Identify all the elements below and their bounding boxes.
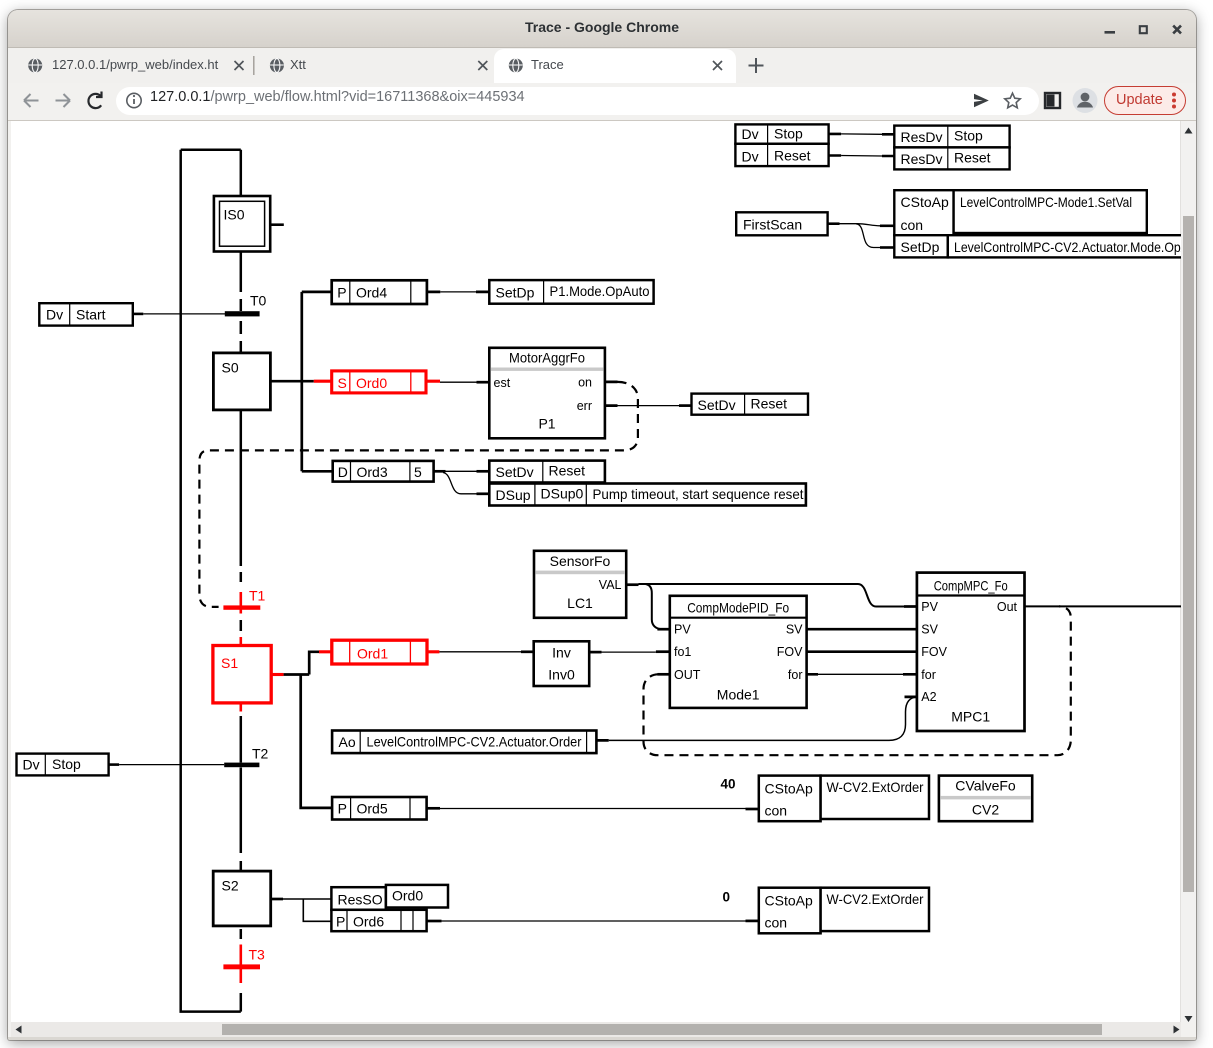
wire Ord3 to SetDv2 xyxy=(446,470,490,472)
condition box FirstScan xyxy=(736,212,827,235)
dashed feedback: PID OUT loop to MPC Out xyxy=(644,606,1071,755)
wire Ord0 to est xyxy=(440,381,489,383)
svg-text:Ord5: Ord5 xyxy=(357,801,388,817)
svg-text:for: for xyxy=(788,668,803,682)
transition T2 xyxy=(224,746,268,768)
condition box Dv Stop (top row) xyxy=(735,124,828,143)
SFC main rail xyxy=(181,150,241,1012)
svg-text:est: est xyxy=(494,376,511,390)
svg-text:MPC1: MPC1 xyxy=(951,709,990,725)
svg-text:P: P xyxy=(336,914,345,930)
svg-text:Ord0: Ord0 xyxy=(392,888,423,904)
wire Reset to ResDv Reset xyxy=(829,154,895,157)
wire FirstScan to SetDp xyxy=(856,224,894,248)
wire VAL branch to PID PV xyxy=(646,584,670,629)
rail red segments xyxy=(240,592,243,983)
svg-text:Ord1: Ord1 xyxy=(357,646,388,662)
svg-text:S1: S1 xyxy=(221,655,238,671)
condition box Ao LevelControlMPC-CV2.Actuator.Order xyxy=(332,731,596,754)
svg-text:CStoAp: CStoAp xyxy=(901,194,949,210)
svg-text:err: err xyxy=(577,399,592,413)
value 0 xyxy=(722,890,730,905)
function block CValveFo CV2 xyxy=(939,776,1032,822)
svg-text:Reset: Reset xyxy=(751,396,788,412)
svg-text:Reset: Reset xyxy=(774,147,811,163)
svg-text:PV: PV xyxy=(674,623,691,637)
svg-text:CStoAp: CStoAp xyxy=(765,893,813,909)
step S2 xyxy=(213,871,271,926)
svg-text:P1: P1 xyxy=(538,416,555,432)
svg-text:SetDp: SetDp xyxy=(496,285,535,301)
svg-text:FirstScan: FirstScan xyxy=(743,217,802,233)
condition box Dv Stop (left) xyxy=(17,754,109,776)
svg-text:0: 0 xyxy=(722,890,730,905)
wire Ord5 to CStoAp xyxy=(440,808,759,811)
svg-text:SV: SV xyxy=(786,623,803,637)
svg-text:LevelControlMPC-Mode1.SetVal: LevelControlMPC-Mode1.SetVal xyxy=(960,194,1132,210)
svg-text:Dv: Dv xyxy=(23,757,40,773)
wire MPC Out to edge xyxy=(1025,605,1182,607)
order box CStoAp con LevelControlMPC-Mode1.SetVal xyxy=(894,190,1146,235)
action box S Ord0 (active, red) xyxy=(314,371,440,393)
order box SetDp P1.Mode.OpAuto xyxy=(489,280,653,304)
svg-text:DSup0: DSup0 xyxy=(541,486,584,502)
svg-text:Stop: Stop xyxy=(954,127,983,143)
svg-text:SetDv: SetDv xyxy=(496,464,534,480)
svg-text:5: 5 xyxy=(414,464,422,480)
svg-text:Ord4: Ord4 xyxy=(356,285,387,301)
svg-text:P: P xyxy=(337,285,346,301)
action box P Ord5 xyxy=(332,797,440,820)
svg-text:Dv: Dv xyxy=(46,307,63,323)
svg-text:Ord3: Ord3 xyxy=(357,464,388,480)
wire Stop to ResDv Stop xyxy=(829,133,895,136)
svg-text:OUT: OUT xyxy=(674,668,701,682)
wire Ord3 to DSup xyxy=(443,473,489,494)
svg-text:CompMPC_Fo: CompMPC_Fo xyxy=(934,578,1008,594)
svg-text:IS0: IS0 xyxy=(224,207,245,223)
svg-text:FOV: FOV xyxy=(921,645,947,659)
action box ResSO Ord0 xyxy=(331,885,448,910)
order box SetDv Reset (from err) xyxy=(692,394,809,415)
step S0 xyxy=(213,353,270,410)
svg-text:S0: S0 xyxy=(222,360,239,376)
svg-text:Start: Start xyxy=(76,306,106,322)
wire Ao to MPC A2 xyxy=(596,697,918,741)
order box ResDv Stop xyxy=(894,126,1009,148)
order box DSup DSup0 Pump timeout xyxy=(489,484,806,506)
transition T0 xyxy=(225,293,267,317)
svg-text:Out: Out xyxy=(997,600,1018,614)
svg-text:CV2: CV2 xyxy=(972,802,999,818)
condition box Dv Reset (top row) xyxy=(735,144,828,166)
action box D Ord3 5 xyxy=(333,461,446,482)
svg-text:A2: A2 xyxy=(921,690,936,704)
wire FirstScan to CStoAp con xyxy=(828,224,895,226)
svg-text:for: for xyxy=(921,668,936,682)
svg-text:Reset: Reset xyxy=(549,463,586,479)
svg-text:con: con xyxy=(765,803,788,819)
order box SetDv Reset (timeout) xyxy=(489,461,605,483)
wire Stop to T2 xyxy=(109,763,225,766)
PID OUT stub xyxy=(657,673,669,676)
svg-text:T1: T1 xyxy=(249,588,266,604)
svg-text:Stop: Stop xyxy=(52,756,81,772)
svg-text:D: D xyxy=(338,464,348,480)
wire Ord1 to Inv xyxy=(439,651,533,653)
svg-text:on: on xyxy=(578,376,592,390)
svg-text:con: con xyxy=(765,915,788,931)
svg-text:P: P xyxy=(338,801,347,817)
condition box Dv Start xyxy=(39,303,133,325)
step S1 (active, red) xyxy=(213,646,284,703)
wire for to for xyxy=(807,673,917,676)
order box ResDv Reset xyxy=(894,147,1009,169)
wire Inv to fo1 xyxy=(602,651,670,653)
wire Start to T0 xyxy=(133,313,225,316)
svg-text:Ao: Ao xyxy=(339,734,356,750)
S2 action junction wires xyxy=(271,899,332,921)
svg-text:Inv: Inv xyxy=(552,645,571,661)
svg-text:ResSO: ResSO xyxy=(338,892,383,908)
transition T3 (red) xyxy=(223,947,265,970)
wire Ord4 to SetDp xyxy=(427,291,489,294)
svg-text:con: con xyxy=(901,217,924,233)
svg-text:S: S xyxy=(338,375,347,391)
order box CStoAp con W-CV2.ExtOrder (0) xyxy=(759,888,929,934)
svg-text:PV: PV xyxy=(921,600,938,614)
svg-text:Stop: Stop xyxy=(774,125,803,141)
wire VAL to MPC PV xyxy=(639,584,918,607)
svg-text:Mode1: Mode1 xyxy=(717,687,760,703)
action box P Ord6 xyxy=(331,910,441,931)
svg-text:CompModePID_Fo: CompModePID_Fo xyxy=(687,600,789,616)
svg-text:SV: SV xyxy=(921,623,938,637)
svg-text:Inv0: Inv0 xyxy=(548,667,575,683)
svg-text:T2: T2 xyxy=(252,746,269,762)
svg-text:Ord0: Ord0 xyxy=(356,375,387,391)
svg-text:fo1: fo1 xyxy=(674,645,691,659)
transition T1 (red) xyxy=(223,588,265,610)
svg-text:W-CV2.ExtOrder: W-CV2.ExtOrder xyxy=(827,779,924,795)
svg-text:LevelControlMPC-CV2.Actuator.M: LevelControlMPC-CV2.Actuator.Mode.OpAuto xyxy=(954,239,1206,255)
S0 action junction wires xyxy=(270,292,332,471)
svg-text:FOV: FOV xyxy=(777,645,803,659)
svg-text:VAL: VAL xyxy=(599,578,622,592)
svg-text:ResDv: ResDv xyxy=(901,129,943,145)
action box Ord1 (active, red) xyxy=(319,640,439,664)
svg-text:W-CV2.ExtOrder: W-CV2.ExtOrder xyxy=(827,891,924,907)
svg-text:SensorFo: SensorFo xyxy=(550,553,611,569)
svg-text:SetDv: SetDv xyxy=(698,397,736,413)
svg-text:MotorAggrFo: MotorAggrFo xyxy=(509,350,585,366)
svg-text:SetDp: SetDp xyxy=(901,239,940,255)
order box SetDp LevelControlMPC-CV2.Actuator.Mode.OpA xyxy=(894,235,1210,257)
svg-text:DSup: DSup xyxy=(496,487,531,503)
svg-text:Reset: Reset xyxy=(954,149,991,165)
value 40 xyxy=(720,777,735,792)
function block Inv Inv0 xyxy=(534,641,602,686)
initial step IS0 xyxy=(214,196,284,252)
svg-text:ResDv: ResDv xyxy=(901,151,943,167)
function block CompModePID_Fo Mode1 xyxy=(670,596,807,708)
svg-text:LevelControlMPC-CV2.Actuator.O: LevelControlMPC-CV2.Actuator.Order xyxy=(367,734,582,750)
svg-text:Dv: Dv xyxy=(742,126,759,142)
S1 action junction wires xyxy=(284,652,333,808)
svg-text:CValveFo: CValveFo xyxy=(955,778,1016,794)
svg-text:T0: T0 xyxy=(250,293,267,309)
svg-text:LC1: LC1 xyxy=(567,595,593,611)
svg-text:CStoAp: CStoAp xyxy=(765,781,813,797)
svg-text:S2: S2 xyxy=(222,878,239,894)
svg-text:T3: T3 xyxy=(249,947,266,963)
wire err to SetDv xyxy=(618,405,692,407)
order box CStoAp con W-CV2.ExtOrder (40) xyxy=(759,776,929,822)
function block SensorFo LC1 xyxy=(534,551,639,618)
function block MotorAggrFo P1 xyxy=(489,348,617,439)
svg-text:Ord6: Ord6 xyxy=(353,914,384,930)
dashed condition wire: on -> T1 xyxy=(199,382,638,607)
svg-text:40: 40 xyxy=(720,777,735,792)
wire Ord6 to CStoAp (0) xyxy=(442,920,759,922)
svg-text:Dv: Dv xyxy=(742,148,759,164)
function block CompMPC_Fo MPC1 xyxy=(917,573,1025,731)
svg-text:P1.Mode.OpAuto: P1.Mode.OpAuto xyxy=(550,283,650,299)
action box P Ord4 xyxy=(332,280,427,304)
svg-text:Pump timeout, start sequence r: Pump timeout, start sequence reset xyxy=(593,486,804,502)
wire PID FOV to MPC FOV xyxy=(807,650,917,653)
wire PID SV to MPC SV xyxy=(807,628,917,631)
